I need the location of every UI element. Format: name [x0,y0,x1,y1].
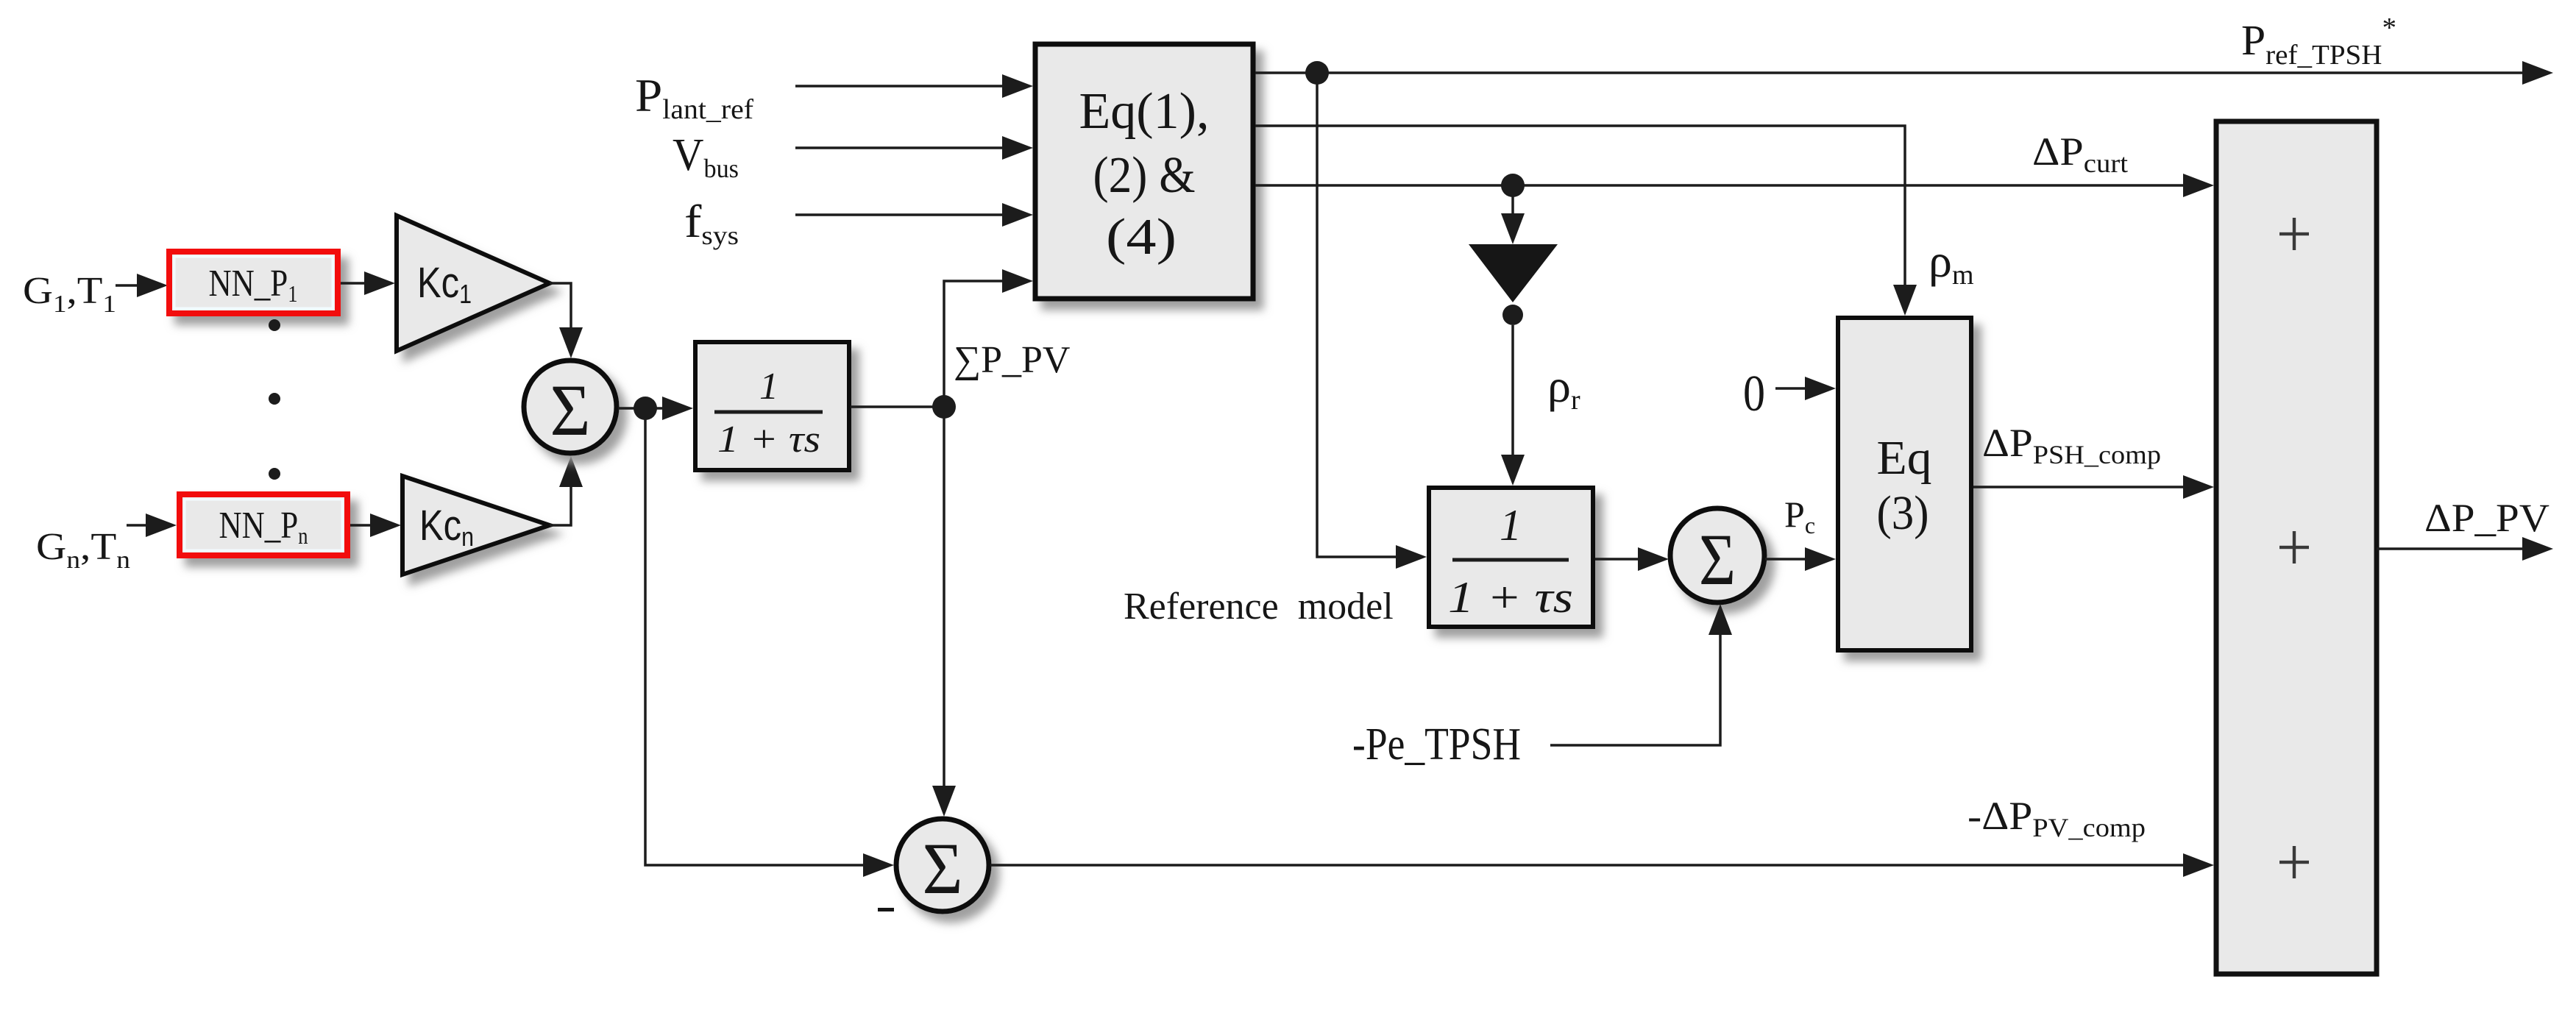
wire G1,T1 to NN_P1 [116,274,168,297]
label L1 fraction bar [714,410,823,414]
wire junction C down to lag block L2 [1317,73,1427,569]
svg-text:1 + τs: 1 + τs [717,419,820,461]
svg-text:NN_P1: NN_P1 [209,263,298,307]
block NN_Pn (neural network) [180,494,347,555]
svg-text:1 + τs: 1 + τs [1448,573,1573,622]
gain Kcn (triangle) [402,476,550,575]
svg-text:Reference model: Reference model [1124,586,1394,628]
svg-text:1: 1 [759,366,778,408]
block NN_P1 (neural network) [169,252,338,313]
wire 0 to Eq3 [1775,377,1836,400]
svg-text:1: 1 [1500,501,1522,550]
wire Eq124 output 1 to P_ref_TPSH* [1255,61,2553,85]
wire NN_P1 to Kc1 [341,271,395,295]
wire junction D to inverter triangle [1501,196,1525,244]
wire node B up to Eq124 input 4 [944,269,1033,407]
block L1 transfer function 1/(1+tau s) [695,342,849,470]
wire S2 to Eq3 (P_c) [1765,547,1836,571]
wire Eq124 output 2 to Eq3 top (rho_m) [1255,126,1917,316]
svg-text:Σ: Σ [1699,519,1736,600]
wire S1 to lag block L1 [618,397,693,420]
svg-text:NN_Pn: NN_Pn [219,505,308,549]
inverter triangle (reference model input) [1469,244,1558,302]
svg-text:Σ: Σ [923,828,963,909]
wire S3 to big summing block (-Delta P_PV_comp) [990,853,2214,877]
svg-text:Eq: Eq [1877,431,1932,485]
wire node E to L2 top (rho_r) [1501,325,1525,486]
plus sign bottom [2279,846,2309,878]
node B junction (Sum P_PV) [932,395,956,419]
block Eq3 [1838,318,1971,650]
svg-text:0: 0 [1743,366,1765,422]
svg-text:ΔP_PV: ΔP_PV [2424,496,2550,540]
wire L2 to summer S2 [1595,547,1669,571]
label L2 fraction bar [1452,558,1569,562]
junction D on output 3 [1501,174,1525,197]
wire f_sys to Eq124 input 3 [795,203,1033,227]
svg-text:(2) &: (2) & [1093,147,1196,204]
wire junction A down and right to summer S3 [645,408,894,877]
svg-text:(3): (3) [1877,486,1929,540]
wire Gn,Tn to NN_Pn [127,513,177,537]
label minus at S3 [878,908,894,911]
wire L1 output to node B [851,405,944,408]
wire Eq124 output 3 to big summing block (Delta P_curt) [1255,174,2214,197]
wire Kcn to summer S1 [550,456,583,525]
svg-text:∑P_PV: ∑P_PV [954,339,1070,381]
wire NN_Pn to Kcn [350,513,401,537]
plus sign top [2279,218,2309,250]
svg-text:-Pe_TPSH: -Pe_TPSH [1352,719,1521,769]
wire Eq3 to big summing block (Delta P_PSH_comp) [1973,475,2214,499]
wire V_bus to Eq124 input 2 [795,136,1033,160]
block Eq124 Eq(1),(2)&(4) [1035,44,1253,299]
plus sign middle [2279,531,2309,564]
summer S3 [896,819,989,911]
block L2 transfer function 1/(1+tau s) [1429,488,1593,627]
summer S1 [524,360,617,453]
svg-text:(4): (4) [1106,209,1177,266]
ellipsis dots between NN_P1 and NN_Pn [269,319,280,480]
svg-text:Eq(1),: Eq(1), [1079,83,1210,140]
svg-text:G1,T1: G1,T1 [23,270,116,318]
svg-text:Gn,Tn: Gn,Tn [36,526,130,574]
gain Kc1 (triangle) [397,216,550,351]
wire -Pe_TPSH to S2 bottom [1550,604,1732,745]
junction C on output 1 [1305,61,1329,85]
wire node B down to summer S3 [932,407,956,817]
wire Kc1 to summer S1 [550,283,583,358]
node E below inverter [1502,305,1523,325]
wire P_lant_ref to Eq124 input 1 [795,74,1033,98]
junction A (S1 output node) [634,397,657,420]
summer S2 [1670,508,1764,603]
big summing block [2216,121,2377,974]
wire big summing block to Delta P_PV output [2377,537,2553,561]
svg-text:Σ: Σ [550,369,591,451]
